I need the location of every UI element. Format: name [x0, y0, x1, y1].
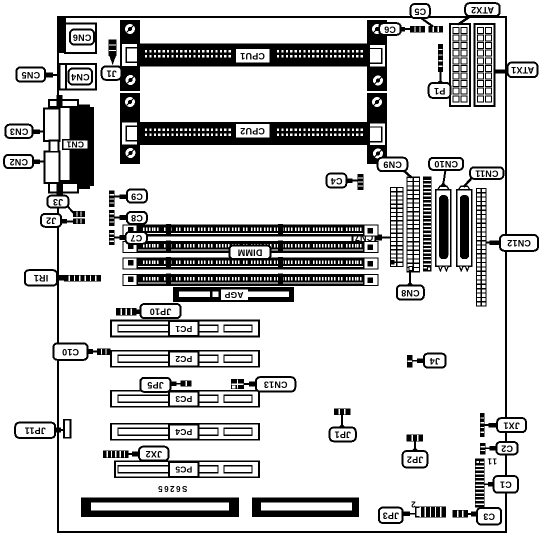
connector CN4 — [60, 64, 97, 90]
label C3 with leader — [468, 508, 501, 525]
label JP3 with leader — [379, 508, 415, 523]
label DIMM — [229, 245, 270, 259]
label C4 with leader — [327, 174, 358, 188]
ISA slot B — [252, 498, 359, 518]
header CN9/CN8 (2-col ladder) — [407, 177, 421, 273]
svg-text:J3: J3 — [53, 197, 63, 207]
label ATX2 with leader — [458, 3, 500, 24]
svg-text:PC1: PC1 — [175, 324, 192, 334]
label IR1 with leader — [25, 270, 66, 285]
connector JP11 — [64, 420, 71, 438]
ATX power connector ATX1 — [475, 24, 495, 106]
ATX power connector ATX2 — [450, 24, 470, 106]
board outline — [58, 17, 506, 532]
jumper J1 — [102, 40, 122, 80]
capacitor C9 — [109, 191, 115, 208]
connector CN1 — [44, 95, 94, 196]
label CN12 with leader — [487, 235, 539, 251]
svg-text:P1: P1 — [434, 86, 445, 96]
svg-text:C1: C1 — [500, 480, 512, 490]
PCI slot PC3 — [111, 391, 259, 407]
label C1 with leader — [485, 476, 518, 493]
svg-text:J2: J2 — [46, 216, 56, 226]
jumper block J3 — [73, 211, 85, 217]
label J2 with leader — [41, 214, 73, 227]
svg-text:CN1: CN1 — [66, 140, 84, 150]
capacitor C4 — [357, 174, 363, 190]
svg-text:CPU2: CPU2 — [240, 126, 265, 136]
label C6 with leader — [379, 23, 410, 35]
label CN7 with leader — [353, 231, 391, 244]
svg-text:C6: C6 — [384, 24, 396, 34]
CPU slot CPU2 — [120, 93, 387, 164]
svg-text:CN4: CN4 — [71, 72, 90, 82]
svg-text:C10: C10 — [62, 347, 79, 357]
connector CN11 (SCSI) — [457, 186, 472, 270]
svg-text:CN9: CN9 — [383, 160, 402, 170]
label C7 with leader — [115, 232, 147, 244]
label CN3 with leader — [5, 125, 45, 138]
svg-text:CN2: CN2 — [9, 157, 28, 167]
svg-text:DIMM: DIMM — [238, 247, 263, 257]
label CN10 with leader — [429, 158, 463, 187]
label C8 with leader — [115, 212, 147, 224]
label JP2 with leader — [403, 441, 428, 467]
header CN7 (2-col ladder) — [390, 187, 404, 267]
capacitor C10 — [97, 348, 111, 355]
DIMM slot row 2 — [123, 241, 378, 253]
label JP11 with leader — [15, 423, 65, 438]
label CN2 with leader — [4, 155, 45, 168]
svg-text:JP5: JP5 — [147, 380, 164, 390]
capacitor C6 — [410, 26, 425, 32]
label JP5 with leader — [140, 378, 181, 392]
svg-text:CN11: CN11 — [475, 168, 498, 178]
label CN5 with leader — [16, 67, 60, 81]
PCI slot PC5 — [115, 461, 259, 477]
svg-text:ATX1: ATX1 — [511, 65, 534, 75]
capacitor C5 — [429, 26, 444, 32]
svg-text:JX2: JX2 — [145, 449, 162, 459]
svg-text:CN13: CN13 — [264, 380, 288, 390]
svg-text:CN6: CN6 — [73, 32, 92, 42]
svg-text:PC2: PC2 — [175, 354, 192, 364]
ISA slot A — [81, 498, 239, 518]
label C9 with leader — [115, 189, 147, 202]
label JP1 with leader — [330, 415, 356, 441]
connector CN6 — [58, 17, 96, 53]
label CN8 with leader — [397, 272, 424, 299]
svg-text:C2: C2 — [501, 444, 513, 454]
label C5 with leader — [411, 4, 433, 27]
svg-text:CN5: CN5 — [21, 70, 40, 80]
svg-text:CN8: CN8 — [401, 288, 420, 298]
svg-text:PC3: PC3 — [175, 394, 192, 404]
label C2 with leader — [486, 442, 518, 454]
svg-text:JX1: JX1 — [503, 420, 520, 430]
jumper JP5 — [181, 381, 192, 387]
svg-text:C4: C4 — [331, 176, 343, 186]
CPU slot CPU1 — [120, 20, 387, 91]
jumper block CN13 — [231, 379, 244, 389]
resistor pack by C1 — [475, 459, 485, 508]
capacitor C2 — [480, 443, 486, 455]
jumper block J2 — [73, 219, 85, 225]
svg-text:PC4: PC4 — [175, 427, 192, 437]
label CN9 with leader — [378, 158, 412, 178]
capacitor C7 — [109, 230, 115, 245]
IR module strip — [64, 275, 101, 282]
svg-text:JP11: JP11 — [25, 426, 46, 436]
PCI slot PC1 — [111, 321, 259, 337]
svg-text:IR1: IR1 — [34, 273, 49, 283]
svg-text:C9: C9 — [131, 191, 143, 201]
svg-text:CPU1: CPU1 — [240, 51, 265, 61]
svg-text:CN12: CN12 — [507, 238, 531, 248]
svg-text:JP10: JP10 — [150, 306, 172, 316]
jumper J4 — [407, 355, 412, 368]
PCI slot PC2 — [111, 351, 259, 367]
label CN11 with leader — [464, 167, 504, 187]
label JP10 with leader — [136, 304, 181, 318]
capacitor C3 — [453, 510, 468, 518]
header P1 — [429, 44, 451, 98]
svg-text:JP2: JP2 — [407, 455, 424, 465]
svg-text:S6265: S6265 — [157, 484, 188, 493]
jumper JX1 strip — [480, 413, 485, 437]
svg-text:J1: J1 — [106, 68, 116, 78]
DIMM slot row 4 — [123, 274, 378, 286]
svg-text:11: 11 — [486, 457, 496, 466]
jumper JP3 strip — [415, 507, 446, 518]
jumper JP10 — [116, 308, 137, 316]
label JX2 with leader — [129, 447, 169, 461]
header CN12 (2-col ladder) — [476, 188, 487, 307]
DIMM slot row 3 — [123, 257, 378, 269]
svg-text:CN3: CN3 — [10, 127, 29, 137]
label CN13 with leader — [244, 377, 295, 391]
svg-text:2: 2 — [411, 499, 416, 508]
label C10 with leader — [53, 343, 98, 359]
svg-text:C3: C3 — [483, 512, 495, 522]
svg-text:JP3: JP3 — [382, 511, 399, 521]
label JX1 with leader — [485, 418, 526, 432]
capacitor C8 — [109, 210, 115, 226]
AGP slot — [173, 287, 294, 302]
svg-text:J4: J4 — [430, 356, 440, 366]
jumper JP1 — [334, 408, 351, 415]
PCI slot PC4 — [111, 424, 259, 440]
svg-text:AGP: AGP — [224, 290, 243, 300]
svg-text:C7: C7 — [130, 233, 142, 243]
connector CN10 (SCSI) — [436, 186, 451, 270]
svg-text:ATX2: ATX2 — [471, 5, 494, 15]
svg-text:PC5: PC5 — [175, 465, 192, 475]
label J3 with leader — [47, 193, 74, 214]
jumper JP2 — [407, 434, 424, 441]
label J4 with leader — [412, 354, 445, 368]
svg-text:C8: C8 — [131, 213, 143, 223]
DIMM slot row 1 — [123, 224, 378, 236]
striped header beside CN9 — [423, 177, 432, 272]
svg-text:JP1: JP1 — [334, 430, 351, 440]
svg-text:C5: C5 — [414, 6, 426, 16]
svg-text:CN10: CN10 — [434, 159, 458, 169]
jumper JX2 — [103, 450, 129, 458]
label ATX1 with leader — [494, 63, 538, 78]
